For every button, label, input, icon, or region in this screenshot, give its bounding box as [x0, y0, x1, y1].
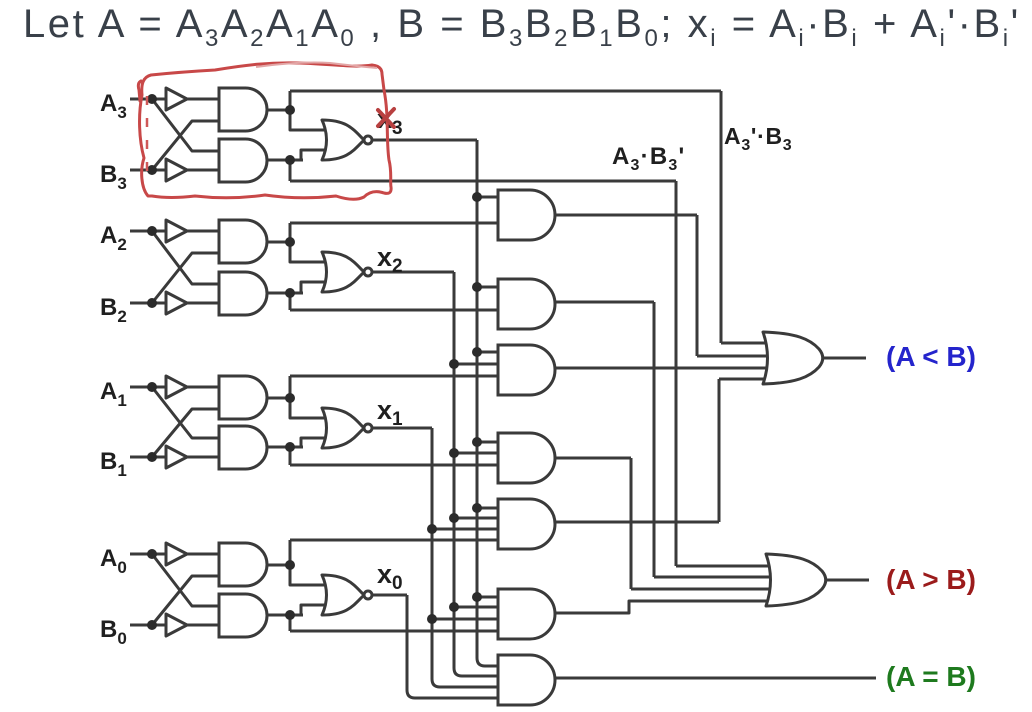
node B3: [147, 165, 157, 175]
wire G2 vertical: [653, 302, 656, 577]
wire A3'·B3 into OR(A<B): [721, 342, 795, 345]
svg-text:(A = B): (A = B): [886, 661, 976, 692]
wire x3 tap y=508: [477, 507, 508, 510]
wire G5 output: [555, 521, 719, 524]
wire bottom branch stage 2 vertical: [289, 293, 292, 310]
wire top AND3 output: [267, 109, 292, 112]
wire x3 vertical bus: [476, 140, 479, 658]
node x3 tap y=197: [472, 192, 482, 202]
wire x3 from NOR output: [372, 139, 477, 142]
wire A1 input: [130, 386, 166, 389]
node top AND0 out: [285, 560, 295, 570]
buffer A2: [166, 220, 187, 242]
AND G7 x3x2x1x0 (A=B): [498, 655, 555, 705]
wire node to NOR1 top input: [290, 376, 340, 418]
wire B1 cross diagonal to top AND: [152, 409, 232, 457]
buffer A3: [166, 88, 187, 110]
wire G5 into OR(A<B): [719, 378, 795, 381]
or-gate (A<B): [763, 332, 823, 384]
wire G3 output into OR(A<B): [555, 367, 795, 370]
wire node to NOR0 top input: [290, 540, 340, 585]
wire B3 buffered to bottom AND: [187, 169, 232, 172]
and-gate bottom stage 1: [219, 426, 267, 469]
wire B2 buffered to bottom AND: [187, 302, 232, 305]
wire B0 input: [130, 624, 166, 627]
node x1 tap y=619: [427, 614, 437, 624]
wire G2 into OR(A>B): [654, 576, 798, 579]
node x2 tap y=518: [449, 513, 459, 523]
node bottom AND0 out: [285, 610, 295, 620]
and-gate bottom stage 2: [219, 272, 267, 315]
wire G4 vertical: [630, 458, 633, 589]
wire B2 input: [130, 302, 166, 305]
nor-gate x1: [322, 408, 364, 448]
AND G5 x3x2x1·A0'B0: [498, 499, 555, 549]
wire x3 tap y=352: [477, 351, 508, 354]
wire top AND0 output: [267, 564, 292, 567]
and-gate bottom stage 0: [219, 594, 267, 637]
wire x3 tap y=287: [477, 286, 508, 289]
wire x0 from NOR output: [372, 594, 407, 597]
wire bottom AND3 output: [267, 159, 303, 162]
node x3 tap y=508: [472, 503, 482, 513]
wire A2 buffered to top AND: [187, 230, 232, 233]
wire top AND2 output: [267, 241, 292, 244]
node A0: [147, 549, 157, 559]
and-gate top stage 1: [219, 376, 267, 419]
wire G1 vertical: [696, 215, 699, 356]
node top AND2 out: [285, 237, 295, 247]
wire x0 vertical bus: [406, 595, 409, 690]
wire A3·B3' vertical: [675, 181, 678, 566]
AND G6 x3x2x1·A0B0': [498, 589, 555, 639]
buffer B2: [166, 292, 187, 314]
wire B0 buffered to bottom AND: [187, 624, 232, 627]
node x3 tap y=352: [472, 347, 482, 357]
wire A1 cross diagonal to bottom AND: [152, 387, 232, 438]
node x3 tap y=287: [472, 282, 482, 292]
buffer B1: [166, 446, 187, 468]
wire G4 into OR(A>B): [631, 588, 798, 591]
wire x2 tap y=364: [454, 363, 508, 366]
wire top branch stage 0: [290, 539, 505, 542]
node x2 tap y=453: [449, 448, 459, 458]
wire A2 cross diagonal to bottom AND: [152, 231, 232, 284]
wire x3 into AND7: [477, 658, 508, 666]
wire x1 tap y=619: [432, 618, 508, 621]
nor-gate x2: [322, 252, 364, 292]
wire bottom branch stage 0 vertical: [289, 615, 292, 631]
AND G1 x3·A2'B2: [498, 190, 555, 240]
wire A2 input: [130, 230, 166, 233]
wire bottom branch stage 1: [290, 464, 505, 467]
node x3 tap y=442: [472, 437, 482, 447]
wire bottom branch stage 2: [290, 309, 505, 312]
wire node to NOR3 bottom input: [301, 150, 340, 160]
wire A3 input: [130, 98, 166, 101]
wire top branch stage 1: [290, 375, 505, 378]
wire x2 from NOR output: [372, 271, 454, 274]
red X over x3 label: [378, 109, 394, 127]
wire x2 tap y=518: [454, 517, 508, 520]
wire A3·B3' into OR(A>B): [676, 565, 798, 568]
red annotation loop around stage 3: [140, 63, 392, 199]
wire G2 output: [555, 301, 654, 304]
wire node to NOR1 bottom input: [301, 438, 340, 447]
wire bottom branch stage 0: [290, 630, 505, 633]
node x3 tap y=597: [472, 592, 482, 602]
wire A3'·B3 vertical: [720, 91, 723, 343]
wire B2 cross diagonal to top AND: [152, 253, 232, 303]
wire B1 buffered to bottom AND: [187, 456, 232, 459]
wire G6 output: [555, 601, 798, 613]
wire bottom branch stage 1 vertical: [289, 447, 292, 465]
wire x3 tap y=442: [477, 441, 508, 444]
and-gate bottom stage 3: [219, 139, 267, 182]
svg-text:(A > B): (A > B): [886, 564, 976, 595]
wire bottom AND0 output: [267, 614, 303, 617]
node B0: [147, 620, 157, 630]
wire bottom AND2 output: [267, 292, 303, 295]
node x1 tap y=529: [427, 524, 437, 534]
wire x2 tap y=453: [454, 452, 508, 455]
node bottom AND1 out: [285, 442, 295, 452]
node top AND1 out: [285, 393, 295, 403]
svg-text:(A < B): (A < B): [886, 341, 976, 372]
node bottom AND2 out: [285, 288, 295, 298]
wire node to NOR0 bottom input: [301, 605, 340, 615]
wire top branch stage 3: [290, 90, 721, 93]
wire A1 buffered to top AND: [187, 386, 232, 389]
node A2: [147, 226, 157, 236]
wire node to NOR2 top input: [290, 223, 340, 262]
wire x3 tap y=597: [477, 596, 508, 599]
red faint double stroke on top edge: [256, 63, 377, 69]
wire node to NOR3 top input: [290, 91, 340, 130]
wire OR(A<B) output: [815, 357, 866, 360]
node A1: [147, 382, 157, 392]
wire G5 vertical up: [718, 379, 721, 522]
wire A0 input: [130, 553, 166, 556]
node A3: [147, 94, 157, 104]
wire x1 tap y=529: [432, 528, 508, 531]
node bottom AND3 out: [285, 155, 295, 165]
node B1: [147, 452, 157, 462]
and-gate top stage 0: [219, 543, 267, 586]
wire x0 into AND7: [407, 690, 508, 698]
wire bottom AND1 output: [267, 446, 303, 449]
node B2: [147, 298, 157, 308]
wire A3 buffered to top AND: [187, 98, 232, 101]
AND G2 x3·A2B2': [498, 279, 555, 329]
wire x1 vertical bus: [431, 428, 434, 679]
AND G3 x3x2·A1'B1: [498, 345, 555, 395]
wire bottom branch stage 3: [290, 180, 676, 183]
wire x3 tap y=197: [477, 196, 508, 199]
wire B1 input: [130, 456, 166, 459]
wire B3 cross diagonal to top AND: [152, 121, 232, 170]
wire G1 output: [555, 214, 697, 217]
buffer A0: [166, 543, 187, 565]
wire B0 cross diagonal to top AND: [152, 576, 232, 625]
wire x1 from NOR output: [372, 427, 432, 430]
wire x1 into AND7: [432, 679, 508, 687]
wire x2 tap y=607: [454, 606, 508, 609]
wire G1 into OR(A<B): [697, 355, 795, 358]
wire A0 cross diagonal to bottom AND: [152, 554, 232, 606]
red dashed inner line: [146, 96, 149, 178]
node x2 tap y=364: [449, 359, 459, 369]
and-gate top stage 3: [219, 88, 267, 131]
and-gate top stage 2: [219, 220, 267, 263]
wire A3 cross diagonal to bottom AND: [152, 99, 232, 151]
wire B3 input: [130, 169, 166, 172]
nor-gate x3: [322, 120, 364, 160]
wire x2 into AND7: [454, 668, 508, 676]
node top AND3 out: [285, 105, 295, 115]
buffer B3: [166, 159, 187, 181]
AND G4 x3x2·A1B1': [498, 433, 555, 483]
nor-gate x0: [322, 575, 364, 615]
wire node to NOR2 bottom input: [301, 282, 340, 293]
wire G4 output: [555, 457, 631, 460]
buffer A1: [166, 376, 187, 398]
wire top AND1 output: [267, 397, 292, 400]
or-gate (A>B): [766, 554, 826, 606]
node x2 tap y=607: [449, 602, 459, 612]
buffer B0: [166, 614, 187, 636]
wire (A=B) output: [555, 677, 876, 680]
wire OR(A>B) output: [818, 579, 869, 582]
wire x2 vertical bus: [453, 272, 456, 668]
wire top branch stage 2: [290, 222, 505, 225]
wire A0 buffered to top AND: [187, 553, 232, 556]
wire bottom branch stage 3 vertical: [289, 160, 292, 181]
